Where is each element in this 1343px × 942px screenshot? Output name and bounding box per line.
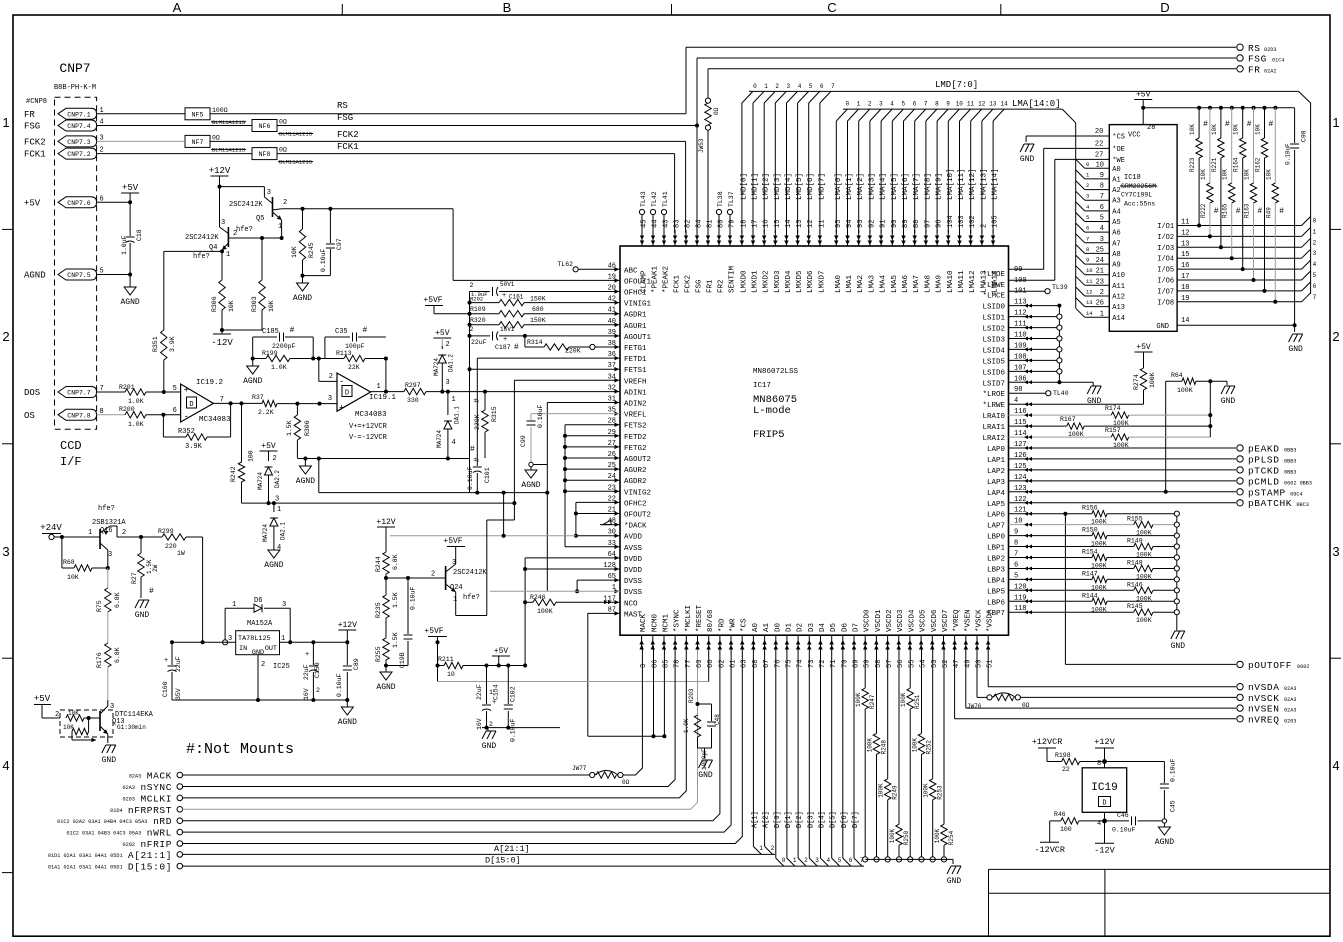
svg-text:LAP5: LAP5 <box>987 501 1006 509</box>
svg-text:R274: R274 <box>1133 374 1140 390</box>
resistor R109 680 <box>470 306 621 317</box>
svg-text:10K: 10K <box>1200 169 1207 180</box>
svg-text:SENTIM: SENTIM <box>729 265 737 293</box>
svg-text:77: 77 <box>685 660 693 668</box>
svg-text:VINIG1: VINIG1 <box>624 301 652 309</box>
svg-text:4: 4 <box>2 758 9 773</box>
svg-text:GND: GND <box>1171 642 1186 651</box>
power -12V at IC19 <box>1094 843 1115 855</box>
svg-text:D3: D3 <box>808 622 816 632</box>
svg-text:MA724: MA724 <box>262 524 269 542</box>
svg-text:69: 69 <box>853 660 861 668</box>
svg-text:C98: C98 <box>1301 130 1308 142</box>
svg-text:#CNP8: #CNP8 <box>26 98 47 106</box>
wire LRAI2 R157 100K <box>1009 427 1211 449</box>
svg-text:4: 4 <box>1313 261 1317 268</box>
svg-text:CCD: CCD <box>60 439 82 453</box>
svg-text:LMD[1]: LMD[1] <box>752 173 760 200</box>
resistor R274 100K pullup on LRWE <box>1009 356 1157 406</box>
wire FETS1 row37 <box>470 368 621 370</box>
svg-text:D1: D1 <box>785 622 793 632</box>
svg-text:LMXD3: LMXD3 <box>774 270 782 293</box>
svg-text:8: 8 <box>1097 760 1101 768</box>
svg-text:02D3: 02D3 <box>1264 47 1276 53</box>
svg-text:*RESET: *RESET <box>696 604 704 632</box>
svg-text:AGOUT2: AGOUT2 <box>624 456 651 464</box>
ground GND below VSCD resistors <box>947 866 962 886</box>
svg-text:100K: 100K <box>889 828 896 843</box>
svg-text:VSCD0: VSCD0 <box>864 609 872 632</box>
svg-text:+: + <box>492 699 496 707</box>
svg-text:R176: R176 <box>96 652 103 668</box>
svg-text:CNP7.1: CNP7.1 <box>67 111 91 118</box>
svg-text:DVSS: DVSS <box>624 578 643 586</box>
svg-text:LMA8: LMA8 <box>924 275 932 293</box>
svg-text:28: 28 <box>1147 124 1155 132</box>
svg-text:0.10uF: 0.10uF <box>1285 143 1292 165</box>
svg-text:10K: 10K <box>1189 124 1196 135</box>
svg-text:100K: 100K <box>855 692 862 707</box>
svg-text:MN86072LSS: MN86072LSS <box>753 368 799 376</box>
connector CNP7 dashed outline <box>55 97 97 429</box>
terminal nVREQ <box>1237 714 1297 725</box>
svg-text:0Ω: 0Ω <box>279 147 287 154</box>
svg-text:72: 72 <box>819 660 827 668</box>
svg-text:3: 3 <box>786 83 790 90</box>
svg-text:1: 1 <box>857 101 861 108</box>
svg-text:0203: 0203 <box>1284 718 1296 724</box>
ground AGND below C185 <box>243 359 262 387</box>
ground GND below LSID chain <box>1087 386 1102 406</box>
ground AGND at IC19 <box>1155 823 1174 847</box>
VSCD pulldown resistors R247-R254 <box>855 646 955 862</box>
svg-text:D[15:0]: D[15:0] <box>128 862 172 873</box>
wire VSDA to terminal <box>988 646 1236 687</box>
svg-text:AGOUT1: AGOUT1 <box>624 334 652 342</box>
signal nRD terminal <box>57 816 182 827</box>
resistor R300 1.5K <box>286 404 311 458</box>
svg-text:A[2]: A[2] <box>763 811 771 828</box>
frame zone numbers <box>2 115 1339 773</box>
svg-text:DA2.2: DA2.2 <box>274 470 281 488</box>
svg-text:D[7]: D[7] <box>852 811 860 828</box>
svg-text:NCO: NCO <box>624 600 638 608</box>
svg-text:FETD2: FETD2 <box>624 434 647 442</box>
svg-text:6: 6 <box>173 407 177 415</box>
svg-text:68: 68 <box>752 660 760 668</box>
ground GND below Q13 <box>102 745 117 765</box>
filter R203 C48 on nFRPRST <box>683 688 721 770</box>
svg-text:2: 2 <box>55 711 59 719</box>
svg-text:LMXD6: LMXD6 <box>807 270 815 293</box>
svg-text:D: D <box>1102 800 1106 808</box>
terminal FSG <box>1237 54 1285 65</box>
svg-text:1: 1 <box>377 383 381 391</box>
svg-text:ADIN2: ADIN2 <box>624 401 647 409</box>
ferrite bead NF6 <box>252 119 313 138</box>
svg-text:20: 20 <box>1095 128 1103 136</box>
svg-text:2: 2 <box>1086 182 1089 189</box>
svg-text:MA724: MA724 <box>257 472 264 490</box>
svg-text:*WE: *WE <box>1112 157 1125 165</box>
svg-text:*VSDA: *VSDA <box>987 609 995 632</box>
svg-text:0: 0 <box>1313 218 1317 225</box>
svg-text:C185: C185 <box>262 328 279 336</box>
svg-text:R149: R149 <box>1127 538 1143 545</box>
svg-text:TA78L125: TA78L125 <box>238 635 271 643</box>
svg-text:LMA[11]: LMA[11] <box>958 168 966 200</box>
svg-text:60: 60 <box>696 660 704 668</box>
transistor Q5 2SC2412K <box>229 187 287 238</box>
svg-text:VSCD2: VSCD2 <box>886 609 894 632</box>
svg-text:3: 3 <box>110 703 114 711</box>
op-amp IC19.2 MC34083 <box>181 379 231 424</box>
svg-text:LBP4: LBP4 <box>987 577 1006 585</box>
terminal nVSCK <box>1237 693 1297 704</box>
svg-text:2: 2 <box>489 721 493 728</box>
svg-text:L-mode: L-mode <box>753 405 791 417</box>
svg-text:R223: R223 <box>1189 157 1196 172</box>
resistor R235 1.5K <box>375 578 399 638</box>
svg-text:LMA[12]: LMA[12] <box>969 168 977 200</box>
svg-text:D[0]: D[0] <box>774 811 782 828</box>
svg-text:27: 27 <box>1095 152 1103 160</box>
svg-text:C187: C187 <box>495 344 511 351</box>
wire resistor network common vertical <box>1174 511 1179 630</box>
svg-text:0602: 0602 <box>1297 664 1309 670</box>
svg-text:0BB3: 0BB3 <box>1284 458 1296 464</box>
ferrite bead NF8 <box>252 147 313 166</box>
svg-text:hfe?: hfe? <box>98 505 115 513</box>
svg-text:2: 2 <box>771 845 775 852</box>
power +5V above DA1.2 <box>433 329 451 349</box>
svg-text:0Ω: 0Ω <box>622 779 630 786</box>
svg-text:AGND: AGND <box>24 271 46 281</box>
wire rail x565 rows 28-25-33 <box>563 425 620 547</box>
svg-text:99: 99 <box>1014 266 1022 274</box>
wire Q4 emitter node to R351 <box>164 249 224 253</box>
svg-text:0: 0 <box>1086 161 1089 168</box>
svg-text:pBATCHK: pBATCHK <box>1248 498 1292 509</box>
svg-text:A[21:1]: A[21:1] <box>128 850 172 861</box>
svg-text:TL62: TL62 <box>557 261 573 268</box>
svg-text:3: 3 <box>640 664 648 668</box>
svg-text:LMA[14:0]: LMA[14:0] <box>1012 99 1061 109</box>
svg-text:2: 2 <box>329 373 333 381</box>
svg-text:10K: 10K <box>1222 169 1229 180</box>
svg-text:RS: RS <box>337 101 348 111</box>
svg-text:*LMWE: *LMWE <box>982 282 1005 290</box>
svg-text:R198: R198 <box>1055 752 1071 759</box>
svg-text:R250: R250 <box>903 830 910 845</box>
svg-text:22: 22 <box>1062 766 1070 773</box>
svg-text:#: # <box>473 398 482 403</box>
svg-text:01C4: 01C4 <box>1272 58 1284 64</box>
terminal nVSEN <box>1237 704 1297 715</box>
svg-text:LAP3: LAP3 <box>987 479 1006 487</box>
svg-text:#: # <box>470 445 475 454</box>
IC17 right pin names and numbers <box>982 266 1026 618</box>
svg-text:0: 0 <box>782 857 786 864</box>
svg-text:A7: A7 <box>1112 240 1120 248</box>
svg-text:100K: 100K <box>1136 530 1152 537</box>
svg-text:TL43: TL43 <box>640 191 647 207</box>
svg-text:D2: D2 <box>797 623 805 632</box>
svg-text:14: 14 <box>1000 101 1008 108</box>
svg-text:LSID0: LSID0 <box>982 304 1005 312</box>
svg-text:3: 3 <box>328 395 332 403</box>
svg-text:A8: A8 <box>1112 251 1120 259</box>
svg-text:A6: A6 <box>1112 230 1120 238</box>
svg-text:LAP7: LAP7 <box>987 523 1005 531</box>
svg-text:C99: C99 <box>520 435 527 447</box>
svg-text:-12V: -12V <box>211 338 233 348</box>
svg-text:01D1 02A1 03A1 04A1 05D1: 01D1 02A1 03A1 04A1 05D1 <box>48 853 123 859</box>
svg-text:10: 10 <box>447 671 455 678</box>
svg-text:2: 2 <box>283 199 287 207</box>
svg-text:FETS2: FETS2 <box>624 423 647 431</box>
svg-text:7: 7 <box>220 396 224 404</box>
svg-text:9: 9 <box>946 101 950 108</box>
svg-text:CNP7.3: CNP7.3 <box>67 139 91 146</box>
svg-text:1: 1 <box>453 596 457 604</box>
capacitor block C35 100pF <box>325 326 386 359</box>
bus A[21:1] <box>182 646 775 854</box>
svg-text:5: 5 <box>1086 214 1089 221</box>
svg-text:AGDR2: AGDR2 <box>624 478 647 486</box>
wire rail drop x469.5 <box>469 459 471 493</box>
svg-text:14: 14 <box>1086 310 1093 317</box>
svg-text:2SC2412K: 2SC2412K <box>453 569 487 577</box>
connector pin CNP7.4 (FSG) <box>24 119 104 132</box>
resistor R46 100 <box>1050 811 1105 833</box>
svg-text:*OE: *OE <box>1112 146 1125 154</box>
svg-text:1.5K: 1.5K <box>392 632 399 648</box>
svg-text:R145: R145 <box>1127 603 1143 610</box>
diode DA1.1 MA724 <box>436 392 461 458</box>
svg-text:4: 4 <box>1332 758 1339 773</box>
capacitor C160 22uF 35V <box>162 640 182 700</box>
svg-text:IN: IN <box>239 645 247 653</box>
svg-text:A2: A2 <box>1112 187 1120 195</box>
svg-text:R244: R244 <box>375 556 382 572</box>
svg-text:R144: R144 <box>1082 592 1098 599</box>
svg-text:VSCD6: VSCD6 <box>931 609 939 632</box>
svg-text:LMA12: LMA12 <box>969 270 977 293</box>
svg-text:MA152A: MA152A <box>247 620 273 628</box>
svg-text:I/O5: I/O5 <box>1157 267 1174 275</box>
power +12V rail <box>209 166 265 189</box>
ground AGND below R300 <box>296 459 315 487</box>
svg-text:VREFL: VREFL <box>624 412 647 420</box>
terminal pSTAMP <box>1009 487 1303 498</box>
svg-text:LAP4: LAP4 <box>987 490 1006 498</box>
svg-text:LSID3: LSID3 <box>982 337 1005 345</box>
svg-text:100K: 100K <box>1177 387 1193 394</box>
svg-text:LAP6: LAP6 <box>987 512 1006 520</box>
svg-text:LAP0: LAP0 <box>987 446 1006 454</box>
svg-text:74: 74 <box>797 660 805 668</box>
svg-text:LMA[2]: LMA[2] <box>857 173 865 200</box>
svg-text:Acc:55ns: Acc:55ns <box>1124 201 1155 208</box>
svg-text:VSCD1: VSCD1 <box>875 609 883 632</box>
svg-text:75: 75 <box>785 660 793 668</box>
svg-text:CNP7.7: CNP7.7 <box>67 390 91 397</box>
wire LRAI0 R174 100K <box>1009 405 1213 427</box>
svg-text:IC19.2: IC19.2 <box>196 379 223 387</box>
wire LMCE to TL39 <box>1009 284 1068 294</box>
svg-text:IC18: IC18 <box>1124 174 1141 182</box>
svg-text:TL37: TL37 <box>728 191 735 207</box>
svg-text:C35: C35 <box>335 328 348 336</box>
svg-text:3: 3 <box>1086 193 1089 200</box>
svg-text:10K: 10K <box>1265 169 1272 180</box>
capacitor C102 0.10uF <box>504 664 517 743</box>
svg-text:VSCD5: VSCD5 <box>920 609 928 632</box>
svg-text:LMD[0]: LMD[0] <box>740 173 748 200</box>
svg-text:0.10uF: 0.10uF <box>320 248 327 272</box>
svg-text:C46: C46 <box>1117 812 1129 819</box>
svg-text:CLAMP: CLAMP <box>641 270 649 293</box>
svg-text:R27: R27 <box>131 572 138 584</box>
svg-text:AGND: AGND <box>120 298 139 307</box>
ground GND below R27 <box>135 600 150 620</box>
svg-text:2SC2412K: 2SC2412K <box>229 201 263 209</box>
svg-text:C19B: C19B <box>399 652 406 668</box>
svg-text:R246: R246 <box>530 594 546 601</box>
svg-text:TL38: TL38 <box>717 191 724 207</box>
resistor R201 1.0K <box>97 384 181 405</box>
svg-text:D0: D0 <box>774 622 782 632</box>
svg-text:D: D <box>189 401 193 409</box>
svg-text:1: 1 <box>764 83 768 90</box>
svg-text:VSCD7: VSCD7 <box>942 609 950 632</box>
svg-text:R314: R314 <box>527 339 543 346</box>
svg-text:100: 100 <box>248 450 255 462</box>
svg-text:+5V: +5V <box>122 183 139 193</box>
power +5VF lower <box>424 627 447 682</box>
svg-text:LMXD7: LMXD7 <box>818 270 826 293</box>
svg-text:pPLSD: pPLSD <box>1248 454 1280 465</box>
wire FR to terminal <box>708 68 1236 70</box>
resistor R299 220 1W <box>141 528 203 557</box>
svg-text:C150: C150 <box>314 662 321 678</box>
svg-text:#: # <box>1279 207 1284 216</box>
wire FCK1 to NF8 <box>97 142 675 154</box>
text CCD I/F <box>60 439 82 469</box>
capacitor C150 22uF 16V <box>303 640 321 700</box>
svg-text:1: 1 <box>278 223 282 231</box>
svg-text:5: 5 <box>901 101 905 108</box>
wire FSG vertical from terminal <box>695 58 699 233</box>
svg-text:*WR: *WR <box>730 618 738 632</box>
svg-text:+24V: +24V <box>40 523 62 533</box>
svg-text:MACK: MACK <box>640 613 648 632</box>
svg-text:LMA7: LMA7 <box>913 275 921 293</box>
resistor R244 6.8K <box>375 552 399 580</box>
svg-text:100K: 100K <box>1136 574 1152 581</box>
svg-text:A10: A10 <box>1112 272 1125 280</box>
svg-text:R162: R162 <box>1255 157 1262 172</box>
svg-text:1: 1 <box>232 601 236 609</box>
wire +5VF distribution rail <box>468 292 472 372</box>
svg-text:100: 100 <box>1014 277 1027 285</box>
svg-text:Q24: Q24 <box>450 584 463 592</box>
pullup resistors 10K column low <box>1200 108 1284 304</box>
svg-text:R68: R68 <box>63 559 75 566</box>
svg-text:100K: 100K <box>867 738 874 753</box>
svg-text:+: + <box>164 657 168 665</box>
svg-text:100: 100 <box>1060 826 1072 833</box>
wire CS to GND <box>1026 136 1109 142</box>
svg-text:R113: R113 <box>336 350 352 357</box>
svg-text:-12VCR: -12VCR <box>1034 845 1065 855</box>
svg-text:4: 4 <box>827 857 831 864</box>
svg-text:10K: 10K <box>63 724 74 731</box>
svg-text:LMA[13]: LMA[13] <box>980 168 988 200</box>
svg-text:LMD[6]: LMD[6] <box>807 173 815 200</box>
SRAM address pins <box>1076 159 1125 322</box>
svg-text:#: # <box>1258 207 1263 216</box>
resistor R314 220K <box>525 336 620 355</box>
svg-text:*DACK: *DACK <box>624 523 647 531</box>
svg-text:150K: 150K <box>530 317 546 324</box>
svg-text:pEAKD: pEAKD <box>1248 444 1280 455</box>
svg-text:R157: R157 <box>1105 427 1121 434</box>
svg-text:2: 2 <box>233 230 237 238</box>
svg-text:0.10uF: 0.10uF <box>537 404 544 428</box>
resistor R199 1.0K <box>251 337 316 371</box>
svg-text:R249: R249 <box>892 785 899 800</box>
svg-text:LMA[3]: LMA[3] <box>868 173 876 200</box>
svg-text:D7: D7 <box>853 623 861 632</box>
svg-text:+5VF: +5VF <box>443 537 462 546</box>
svg-text:52: 52 <box>942 660 950 668</box>
svg-text:nVSCK: nVSCK <box>1248 693 1280 704</box>
svg-text:A[1]: A[1] <box>751 811 759 828</box>
svg-text:R320: R320 <box>470 317 486 324</box>
svg-text:FSG: FSG <box>337 113 353 123</box>
power +5V above DA2.2 <box>260 442 278 463</box>
svg-text:1.0K: 1.0K <box>128 398 144 405</box>
svg-text:6.8K: 6.8K <box>114 647 121 663</box>
svg-text:LRAI1: LRAI1 <box>982 424 1005 432</box>
svg-text:LMD[7]: LMD[7] <box>818 173 826 200</box>
power +5V at SRAM <box>1134 91 1152 110</box>
power +5V above R211 row <box>492 647 510 668</box>
svg-text:*VREQ: *VREQ <box>953 609 961 632</box>
svg-text:R64: R64 <box>1171 372 1183 379</box>
svg-text:+12V: +12V <box>209 166 231 176</box>
svg-text:*MCLKI: *MCLKI <box>685 605 693 632</box>
svg-text:5: 5 <box>809 83 813 90</box>
svg-text:R242: R242 <box>230 466 237 482</box>
signal A[21:1] terminal <box>48 850 183 861</box>
svg-text:LMXD2: LMXD2 <box>763 270 771 293</box>
svg-text:#: # <box>1247 120 1252 129</box>
bus LMA wrap to SRAM addresses <box>1062 109 1075 308</box>
svg-text:LSID2: LSID2 <box>982 326 1005 334</box>
svg-text:hfe?: hfe? <box>463 594 480 602</box>
svg-text:R247: R247 <box>869 694 876 709</box>
svg-text:35V: 35V <box>175 688 182 700</box>
svg-text:FETS1: FETS1 <box>624 367 647 375</box>
svg-text:R211: R211 <box>438 656 454 663</box>
svg-text:R222: R222 <box>1200 203 1207 218</box>
svg-text:AGDR1: AGDR1 <box>624 312 647 320</box>
svg-text:R200: R200 <box>119 406 135 413</box>
svg-text:0Ω: 0Ω <box>212 134 220 141</box>
